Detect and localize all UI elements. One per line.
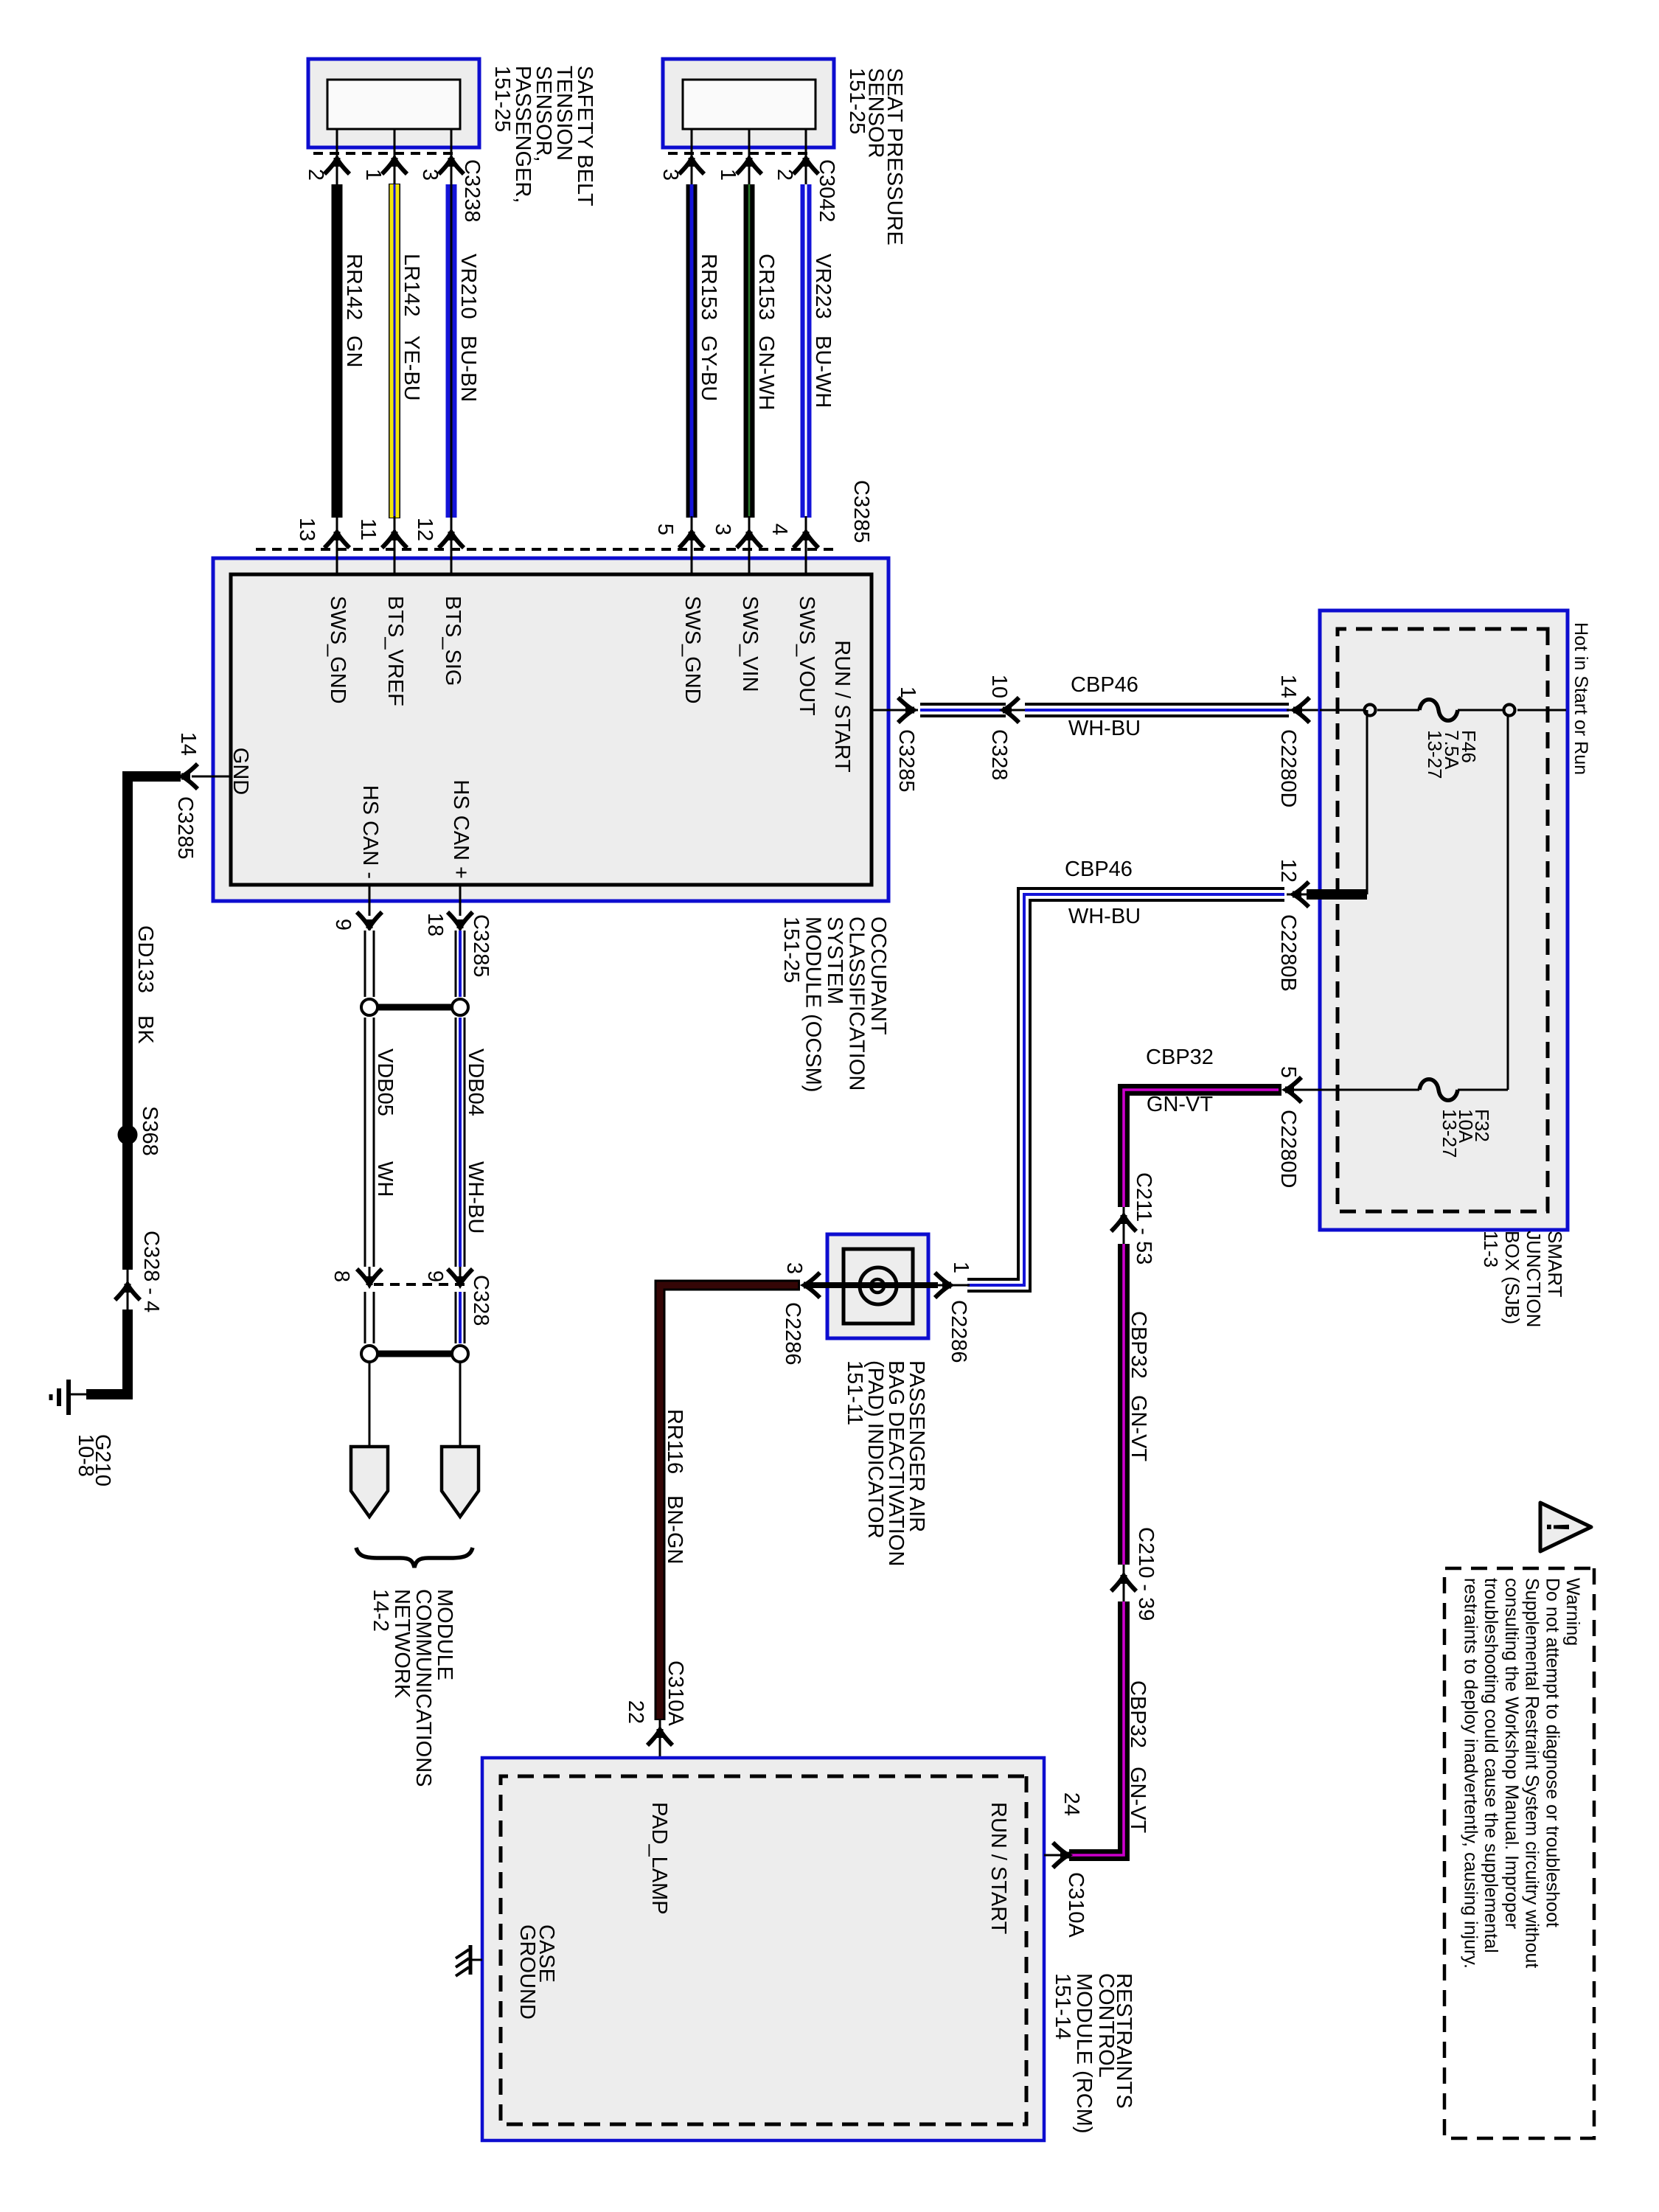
svg-text:VDB05: VDB05 <box>373 1048 397 1116</box>
svg-text:BU-WH: BU-WH <box>811 335 835 408</box>
svg-text:WH-BU: WH-BU <box>464 1161 487 1234</box>
svg-text:151-14: 151-14 <box>1051 1973 1074 2039</box>
svg-text:5: 5 <box>653 524 677 535</box>
svg-text:2: 2 <box>304 169 327 181</box>
connector C328-10 arrow <box>1001 709 1026 712</box>
connector C2280B-12 arrow <box>1287 894 1320 896</box>
svg-text:13-27: 13-27 <box>1439 1109 1461 1158</box>
RCM case ground symbol <box>470 1959 482 1961</box>
svg-text:OCCUPANT: OCCUPANT <box>866 917 890 1035</box>
wire RR116 BN-GN <box>660 1285 800 1720</box>
PAD pin 1 arrow <box>935 1273 951 1298</box>
svg-text:RUN / START: RUN / START <box>830 640 854 773</box>
svg-text:8: 8 <box>330 1270 353 1282</box>
svg-text:C3285: C3285 <box>173 796 197 859</box>
svg-text:C2280D: C2280D <box>1276 729 1300 807</box>
wire CBP32 segment a <box>1124 1090 1281 1207</box>
svg-text:BN-GN: BN-GN <box>663 1495 686 1564</box>
svg-text:1: 1 <box>361 169 385 181</box>
svg-text:10-8: 10-8 <box>74 1434 97 1477</box>
svg-text:14: 14 <box>176 732 200 756</box>
svg-text:C328 - 4: C328 - 4 <box>139 1231 163 1312</box>
RCM box <box>482 1758 1044 2140</box>
svg-text:PAD_LAMP: PAD_LAMP <box>647 1802 671 1915</box>
svg-text:GN-VT: GN-VT <box>1147 1093 1214 1116</box>
svg-text:9: 9 <box>423 1270 447 1282</box>
svg-text:2: 2 <box>773 169 796 181</box>
svg-text:PASSENGER,: PASSENGER, <box>511 66 535 203</box>
svg-text:C310A: C310A <box>664 1660 687 1726</box>
svg-text:3: 3 <box>782 1262 806 1274</box>
svg-text:Hot in Start or Run: Hot in Start or Run <box>1571 622 1591 775</box>
svg-text:GN-VT: GN-VT <box>1126 1767 1150 1834</box>
seat pressure sensor box <box>663 59 834 147</box>
svg-text:3: 3 <box>711 524 734 535</box>
svg-text:COMMUNICATIONS: COMMUNICATIONS <box>411 1589 435 1787</box>
wire VDB05 WH c <box>364 1292 375 1343</box>
wire VDB05 WH b <box>364 1018 375 1267</box>
svg-text:C210 - 39: C210 - 39 <box>1134 1527 1158 1621</box>
svg-text:C328: C328 <box>469 1275 493 1326</box>
svg-text:3: 3 <box>658 169 682 181</box>
SJB branch to pin 12 <box>1366 710 1368 894</box>
svg-text:BTS_VREF: BTS_VREF <box>383 596 407 706</box>
PAD indicator lamp symbol <box>860 1267 897 1304</box>
wire CBP32 segment b <box>1118 1244 1130 1565</box>
wire RR153 GY-BU <box>686 184 698 518</box>
svg-text:MODULE (OCSM): MODULE (OCSM) <box>801 917 825 1092</box>
svg-text:YE-BU: YE-BU <box>400 335 423 401</box>
svg-text:NETWORK: NETWORK <box>390 1589 414 1699</box>
svg-text:SWS_VIN: SWS_VIN <box>738 596 762 692</box>
PAD wire through box <box>813 1282 938 1288</box>
svg-text:RR153: RR153 <box>697 254 720 320</box>
SJB wire F32 to pin 5 <box>1320 1089 1419 1091</box>
wire CBP32 segment c <box>1069 1601 1124 1855</box>
svg-text:1: 1 <box>896 686 919 698</box>
svg-text:C2286: C2286 <box>781 1302 804 1365</box>
svg-text:Supplemental Restraint System: Supplemental Restraint System circuitry … <box>1522 1578 1543 1968</box>
svg-text:22: 22 <box>624 1700 647 1724</box>
SJB wire terminal to fuse <box>1377 709 1419 712</box>
svg-text:GN-VT: GN-VT <box>1127 1395 1150 1462</box>
svg-text:RUN / START: RUN / START <box>987 1802 1010 1935</box>
svg-text:4: 4 <box>768 524 791 535</box>
wire VR210 BU-BN <box>446 184 457 518</box>
svg-text:CONTROL: CONTROL <box>1094 1973 1118 2078</box>
svg-text:BOX (SJB): BOX (SJB) <box>1501 1231 1523 1324</box>
svg-text:151-11: 151-11 <box>843 1360 866 1425</box>
wire GD133 BK a <box>128 776 181 1270</box>
sensor1 pin arrows <box>439 158 464 174</box>
svg-text:MODULE: MODULE <box>433 1589 456 1680</box>
svg-text:151-25: 151-25 <box>490 66 514 132</box>
HS CAN pin arrows <box>448 912 473 928</box>
svg-text:13-27: 13-27 <box>1424 730 1446 779</box>
svg-text:1: 1 <box>716 169 740 181</box>
svg-text:C211 - 53: C211 - 53 <box>1132 1172 1155 1265</box>
svg-text:11: 11 <box>356 518 380 540</box>
svg-text:CBP46: CBP46 <box>1065 858 1133 881</box>
svg-text:GD133: GD133 <box>133 925 157 993</box>
svg-text:CBP46: CBP46 <box>1071 673 1138 697</box>
SJB branch to fuse F32 <box>1507 717 1509 1090</box>
svg-text:(PAD) INDICATOR: (PAD) INDICATOR <box>863 1360 887 1539</box>
svg-text:12: 12 <box>413 518 437 541</box>
wire VDB04 WH-BU a <box>455 931 466 997</box>
svg-text:BK: BK <box>133 1015 157 1044</box>
svg-text:14: 14 <box>1276 675 1300 698</box>
connector C328 dashed line <box>369 1283 465 1286</box>
svg-text:C2280D: C2280D <box>1276 1110 1300 1188</box>
svg-text:CLASSIFICATION: CLASSIFICATION <box>845 917 869 1091</box>
connector C3285 dashed line at OCSM <box>251 548 833 551</box>
twisted pair loops 1 <box>452 999 468 1015</box>
SJB wire fuse to terminal <box>1458 709 1504 712</box>
svg-text:11-3: 11-3 <box>1480 1231 1502 1267</box>
svg-text:14-2: 14-2 <box>369 1589 392 1632</box>
svg-text:9: 9 <box>331 919 355 931</box>
wire CBP46 2 path <box>967 894 1284 1285</box>
RCM pin 24 arrow <box>1044 1854 1071 1857</box>
fuse F46 7.5A <box>1419 700 1458 721</box>
connector C2280D-5 arrow <box>1284 1089 1320 1091</box>
OCSM pin arrows <box>793 532 818 548</box>
connector C2280D-14 arrow <box>1287 709 1320 712</box>
svg-text:VDB04: VDB04 <box>464 1048 487 1116</box>
pin 1 arrow <box>898 698 914 723</box>
svg-text:troubleshooting could cause th: troubleshooting could cause the suppleme… <box>1481 1578 1501 1953</box>
svg-text:PASSENGER AIR: PASSENGER AIR <box>905 1360 928 1532</box>
safety belt tension sensor box <box>308 59 479 147</box>
svg-text:C3238: C3238 <box>460 159 484 222</box>
terminal circle upper <box>1504 705 1515 716</box>
svg-text:GN-WH: GN-WH <box>754 335 778 410</box>
svg-text:HS CAN -: HS CAN - <box>358 785 382 879</box>
svg-text:5: 5 <box>1276 1066 1300 1078</box>
svg-text:WH: WH <box>373 1161 397 1197</box>
SJB wire to hot feed <box>1517 709 1566 712</box>
warning triangle <box>1540 1503 1591 1551</box>
OCSM pin 14 arrow <box>181 764 198 789</box>
ground G210 symbol <box>66 1380 71 1415</box>
offpage arrow VDB04 <box>442 1447 479 1517</box>
connector C328 CAN arrows <box>459 1267 462 1284</box>
svg-text:10: 10 <box>987 675 1011 698</box>
connector C3042 dashed line <box>665 152 807 155</box>
svg-text:151-25: 151-25 <box>845 68 869 134</box>
svg-text:SWS_VOUT: SWS_VOUT <box>795 596 818 716</box>
svg-text:C328: C328 <box>987 729 1011 780</box>
wire pin1 lead <box>872 709 918 712</box>
svg-text:consulting the Workshop Manual: consulting the Workshop Manual. Improper <box>1501 1578 1522 1929</box>
svg-text:C3285: C3285 <box>849 480 873 543</box>
svg-text:C3285: C3285 <box>894 729 918 792</box>
svg-text:SENSOR,: SENSOR, <box>532 66 555 162</box>
svg-text:18: 18 <box>423 913 447 936</box>
svg-text:CR153: CR153 <box>754 254 778 320</box>
CAN tail lines <box>459 1362 462 1448</box>
wire VDB04 WH-BU c <box>455 1292 466 1343</box>
svg-text:JUNCTION: JUNCTION <box>1523 1231 1545 1327</box>
wire CBP46 segment b <box>1025 703 1289 717</box>
warning dashed box <box>1444 1568 1594 2138</box>
svg-text:RR116: RR116 <box>663 1409 686 1474</box>
svg-text:restraints to deploy inadverte: restraints to deploy inadvertently, caus… <box>1461 1578 1481 1969</box>
connector C3238 dashed line <box>310 152 453 155</box>
svg-text:SYSTEM: SYSTEM <box>823 917 846 1004</box>
svg-text:GND: GND <box>229 748 252 795</box>
svg-text:MODULE (RCM): MODULE (RCM) <box>1072 1973 1096 2134</box>
wire VDB04 WH-BU b <box>455 1018 466 1267</box>
PAD pin 3 arrow <box>804 1273 820 1298</box>
RCM dashed inner box <box>501 1776 1026 2124</box>
wire CBP46 segment a <box>920 703 1006 717</box>
svg-text:GN: GN <box>342 335 366 368</box>
svg-text:C3042: C3042 <box>815 159 838 222</box>
svg-text:Do not attempt to diagnose or: Do not attempt to diagnose or troublesho… <box>1542 1578 1562 1927</box>
splice S368 <box>118 1125 137 1144</box>
sensor1 pin stubs <box>451 129 453 186</box>
OCSM pin lead-ins <box>805 516 807 574</box>
connector C211-53 arrow <box>1123 1207 1125 1244</box>
HS CAN pin leads <box>459 885 462 916</box>
SJB box <box>1320 611 1568 1230</box>
svg-text:24: 24 <box>1060 1792 1083 1816</box>
svg-text:S368: S368 <box>138 1106 161 1156</box>
svg-text:SWS_GND: SWS_GND <box>326 596 349 704</box>
PAD pin1 lead <box>928 1284 970 1287</box>
PAD indicator box <box>827 1234 928 1338</box>
svg-text:!: ! <box>1540 1522 1576 1533</box>
svg-text:HS CAN +: HS CAN + <box>449 779 473 879</box>
svg-text:SMART: SMART <box>1544 1231 1566 1298</box>
wire RR142 GN <box>332 184 343 518</box>
wire CR153 GN-WH <box>744 184 755 518</box>
svg-text:13: 13 <box>295 518 319 541</box>
svg-text:1: 1 <box>949 1262 973 1273</box>
wire VR223 BU-WH <box>801 184 812 518</box>
wire VDB05 WH a <box>364 931 375 997</box>
svg-text:12: 12 <box>1276 859 1300 883</box>
brace <box>356 1548 473 1568</box>
svg-text:C2286: C2286 <box>947 1300 970 1363</box>
wire LR142 YE-BU <box>389 184 400 518</box>
svg-text:151-25: 151-25 <box>779 917 803 983</box>
svg-text:3: 3 <box>418 169 442 181</box>
connector C210-39 arrow <box>1123 1565 1125 1601</box>
svg-text:GY-BU: GY-BU <box>697 335 720 401</box>
sensor2 pin stubs <box>805 129 807 186</box>
sensor2 pin arrows <box>793 158 818 174</box>
svg-text:SAFETY BELT: SAFETY BELT <box>573 66 597 206</box>
connector C328-4 <box>127 1270 129 1310</box>
svg-text:TENSION: TENSION <box>552 66 576 161</box>
twisted pair loops 2 <box>452 1346 468 1362</box>
OCSM GND pin lead <box>192 776 231 778</box>
svg-text:WH-BU: WH-BU <box>1068 905 1141 928</box>
offpage arrow VDB05 <box>351 1447 388 1517</box>
svg-text:GROUND: GROUND <box>515 1924 539 2020</box>
svg-text:C3285: C3285 <box>469 914 493 977</box>
svg-text:C2280B: C2280B <box>1276 914 1300 992</box>
svg-text:RR142: RR142 <box>342 254 366 320</box>
svg-text:BU-BN: BU-BN <box>456 335 480 402</box>
svg-text:BAG DEACTIVATION: BAG DEACTIVATION <box>884 1360 908 1566</box>
svg-text:C310A: C310A <box>1064 1872 1088 1938</box>
fuse F32 10A <box>1419 1079 1458 1101</box>
svg-text:CBP32: CBP32 <box>1146 1046 1214 1069</box>
svg-text:CBP32: CBP32 <box>1127 1311 1150 1379</box>
OCSM module box <box>213 558 888 901</box>
terminal circle lower <box>1365 705 1376 716</box>
svg-text:VR223: VR223 <box>811 254 835 319</box>
svg-text:CBP32: CBP32 <box>1126 1680 1150 1748</box>
svg-text:Warning: Warning <box>1562 1578 1583 1646</box>
svg-text:VR210: VR210 <box>456 254 480 319</box>
svg-text:WH-BU: WH-BU <box>1068 717 1141 740</box>
wire GD133 BK b <box>86 1310 128 1394</box>
svg-text:LR142: LR142 <box>400 254 423 316</box>
svg-text:BTS_SIG: BTS_SIG <box>441 596 465 686</box>
SJB wire pin14 to terminal <box>1320 709 1364 712</box>
SJB dashed inner box <box>1338 629 1548 1211</box>
svg-text:SWS_GND: SWS_GND <box>681 596 704 704</box>
